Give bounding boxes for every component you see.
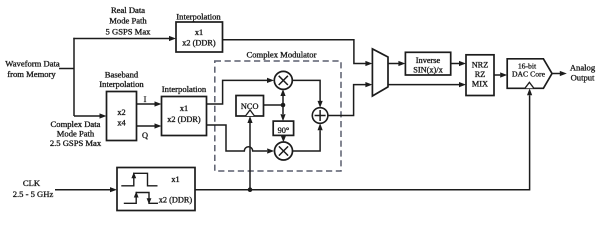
svg-text:Interpolation: Interpolation <box>99 79 144 89</box>
svg-text:DAC Core: DAC Core <box>512 70 546 79</box>
NCO block <box>236 96 264 117</box>
svg-text:Analog: Analog <box>570 62 596 72</box>
svg-text:CLK: CLK <box>23 178 41 188</box>
adder S1 <box>312 108 328 124</box>
wire mux to inverse sinc <box>388 61 405 66</box>
svg-text:90°: 90° <box>278 126 290 135</box>
baseband interpolation U2 block <box>107 92 137 141</box>
svg-text:x2 (DDR): x2 (DDR) <box>167 115 201 124</box>
label x2 DDR (clock) <box>159 195 193 204</box>
svg-text:from Memory: from Memory <box>7 69 56 79</box>
svg-text:x2 (DDR): x2 (DDR) <box>182 39 216 48</box>
svg-text:2.5 GSPS Max: 2.5 GSPS Max <box>50 138 102 148</box>
16-bit DAC core block <box>507 59 552 89</box>
multiplier M1 (I path) <box>274 71 292 89</box>
wire DAC output <box>552 71 567 76</box>
wire M2 to adder <box>292 123 322 151</box>
interpolation U1 (real path) label <box>176 11 221 21</box>
junction clock to NCO <box>247 116 252 192</box>
svg-text:Mode Path: Mode Path <box>109 16 147 26</box>
svg-text:Interpolation: Interpolation <box>176 11 221 21</box>
phase shifter 90 block <box>273 121 293 135</box>
svg-text:Inverse: Inverse <box>416 56 441 65</box>
svg-text:5 GSPS Max: 5 GSPS Max <box>106 27 152 37</box>
svg-text:Interpolation: Interpolation <box>162 84 207 94</box>
wire M1 to adder <box>292 80 323 107</box>
wire real path to interpolation <box>73 36 176 41</box>
node Waveform Data input <box>5 59 60 80</box>
wire I baseband to interpolation <box>137 101 162 106</box>
svg-text:x1: x1 <box>180 104 188 113</box>
clock waveform glyph x1 <box>121 172 157 186</box>
svg-text:Complex Modulator: Complex Modulator <box>247 50 317 60</box>
wire inverse sinc to NRZ <box>451 61 466 66</box>
svg-text:x4: x4 <box>117 118 126 127</box>
wire clock rail <box>195 88 532 189</box>
mux MX1 <box>372 49 388 96</box>
svg-text:I: I <box>144 95 147 104</box>
svg-text:RZ: RZ <box>475 70 486 79</box>
interpolation U3 (complex path) label <box>162 84 207 94</box>
clock waveform glyph x2 DDR <box>124 192 158 205</box>
svg-text:x1: x1 <box>195 28 203 37</box>
wire fork vertical <box>73 38 75 116</box>
wire complex path to baseband interpolation <box>74 113 107 118</box>
NRZ RZ MIX block <box>466 55 494 96</box>
baseband interpolation U2 label <box>99 70 144 90</box>
svg-text:Waveform Data: Waveform Data <box>5 59 60 69</box>
label Analog Output <box>570 62 596 82</box>
clock divider block <box>117 168 195 211</box>
svg-text:Output: Output <box>571 73 595 83</box>
wire NCO output to junction <box>264 89 286 121</box>
multiplier M2 (Q path) <box>275 142 293 160</box>
svg-text:SIN(x)/x: SIN(x)/x <box>413 66 443 75</box>
complex modulator dashed box <box>215 61 341 171</box>
wire NRZ to DAC core <box>494 72 507 77</box>
interpolation U1 (real path) block <box>176 22 223 52</box>
inverse sinc block <box>405 52 450 75</box>
svg-text:Q: Q <box>142 131 148 140</box>
wire from memory to fork <box>59 68 74 70</box>
interpolation U3 (complex path) block <box>162 97 207 136</box>
label Q <box>142 131 148 140</box>
wire I to multiplier M1 <box>207 78 275 104</box>
svg-text:x2: x2 <box>117 108 125 117</box>
svg-text:2.5 - 5 GHz: 2.5 - 5 GHz <box>13 189 54 199</box>
svg-text:Baseband: Baseband <box>105 70 139 80</box>
svg-text:Mode Path: Mode Path <box>57 128 95 138</box>
svg-text:Real Data: Real Data <box>111 5 145 15</box>
wire adder to mux <box>328 82 373 116</box>
label CLK 2.5 - 5 GHz <box>13 178 54 199</box>
wire mux bypass to NRZ <box>388 82 466 87</box>
svg-text:MIX: MIX <box>472 80 488 89</box>
wire interpolation U1 to mux <box>223 40 373 66</box>
svg-text:x1: x1 <box>171 175 179 184</box>
wire Q baseband to interpolation <box>137 123 162 128</box>
label Complex Modulator <box>247 50 317 60</box>
label I <box>144 95 147 104</box>
wire CLK to clock block <box>55 187 117 192</box>
label Real Data Mode Path 5 GSPS Max <box>106 5 152 37</box>
svg-text:NRZ: NRZ <box>472 60 489 69</box>
label Complex Data Mode Path 2.5 GSPS Max <box>50 119 102 148</box>
wire Q to multiplier M2 <box>207 125 275 154</box>
label x1 (clock) <box>171 175 179 184</box>
svg-text:x2 (DDR): x2 (DDR) <box>159 195 193 204</box>
wire 90 to multiplier M2 <box>281 135 286 142</box>
